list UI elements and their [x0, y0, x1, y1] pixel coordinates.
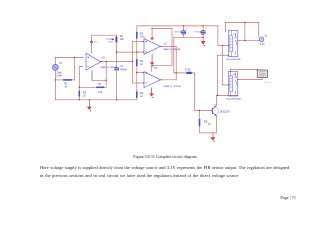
- wire U3 -input: [132, 82, 143, 84]
- page number: [280, 195, 296, 200]
- wire top supply rail: [137, 25, 218, 27]
- wire emitter drop: [215, 116, 217, 133]
- wire collector stub: [215, 95, 217, 105]
- battery V3: [194, 28, 207, 35]
- op-amp U1: [86, 53, 101, 70]
- svg-text:V2 12V: V2 12V: [175, 32, 183, 34]
- wire U2 output: [161, 45, 177, 47]
- svg-text:2.5V: 2.5V: [260, 44, 265, 46]
- wire bus B vertical: [136, 26, 138, 100]
- resistor R5: [79, 91, 87, 98]
- wire feedback left: [79, 86, 96, 88]
- resistor R4 divider mid: [136, 59, 144, 66]
- svg-text:Buzzer: Buzzer: [265, 81, 272, 84]
- relay K2: [226, 72, 240, 101]
- wire R1 to riser: [72, 79, 74, 81]
- wire sources bus drop: [173, 37, 175, 73]
- svg-text:U3: U3: [154, 67, 158, 70]
- wire lamp left drop: [244, 22, 246, 40]
- svg-text:1k: 1k: [83, 95, 86, 98]
- wire V2 bottom stub: [183, 35, 185, 38]
- caption: [5, 154, 320, 159]
- pin dots red: [81, 36, 257, 111]
- svg-text:Q1: Q1: [214, 105, 218, 108]
- wire base horizontal: [195, 109, 212, 111]
- svg-text:1k: 1k: [208, 123, 211, 126]
- wire lamp top horizontal: [226, 21, 259, 23]
- svg-text:V1: V1: [59, 62, 63, 65]
- wire U1 -input stub: [79, 66, 81, 68]
- op-amp U2: [144, 39, 160, 55]
- wire node 3.3V horizontal: [174, 72, 195, 74]
- paragraph line 2: [40, 173, 291, 178]
- svg-text:+: +: [186, 28, 188, 31]
- wire lamp top drop: [258, 22, 260, 37]
- junction dots: [74, 57, 75, 58]
- wire V1 top to U1 +input: [55, 57, 82, 59]
- wire relay feed drop: [221, 45, 223, 85]
- svg-text:2N2222A: 2N2222A: [220, 111, 230, 114]
- wire rail right drop: [217, 26, 219, 46]
- resistor R8 base: [199, 119, 212, 126]
- wire vcc loop bottom: [152, 64, 172, 66]
- svg-text:OPAMP_3T_VIRTUAL: OPAMP_3T_VIRTUAL: [163, 48, 181, 51]
- svg-text:3.3V: 3.3V: [185, 67, 191, 71]
- svg-text:V3 3.3V: V3 3.3V: [194, 32, 202, 34]
- wire ground rail bottom: [55, 99, 136, 101]
- U1 vcc arrow: [90, 40, 99, 44]
- wire K2 coil feed: [222, 84, 228, 86]
- wire collector bus: [216, 94, 237, 96]
- wire K1 to lamp: [238, 40, 260, 42]
- resistor R6 divider bottom: [136, 91, 144, 98]
- resistor R1: [63, 79, 72, 89]
- svg-text:VCC: VCC: [94, 42, 99, 44]
- lamp X1: [259, 35, 267, 46]
- U3 vee stub: [149, 88, 153, 98]
- label U2: [163, 43, 181, 51]
- svg-text:470nF: 470nF: [120, 68, 127, 71]
- svg-text:+: +: [205, 28, 207, 31]
- svg-text:K1: K1: [233, 34, 236, 36]
- node 3.3V tag: [185, 67, 193, 74]
- op-amp U3: [144, 72, 160, 88]
- label U1: [100, 56, 118, 68]
- wire V1 bottom to R1: [55, 79, 63, 81]
- wire K1 coil return: [218, 54, 229, 56]
- resistor R3 divider top: [136, 32, 145, 39]
- wire 3.3V node drop: [194, 73, 196, 111]
- wire U2 +input: [132, 41, 143, 43]
- wire K2 to buzzer bottom: [238, 77, 262, 79]
- paragraph line 1: [40, 165, 291, 170]
- svg-text:1Vpk: 1Vpk: [56, 72, 62, 74]
- ground symbol right: [211, 133, 216, 142]
- ground symbol left: [87, 100, 92, 111]
- wire pot top stub: [116, 35, 118, 37]
- transistor Q1: [212, 105, 230, 116]
- svg-text:U1: U1: [102, 56, 106, 59]
- svg-text:U2: U2: [164, 43, 168, 46]
- wire vcc loop right: [171, 28, 173, 65]
- resistor R7 feedback: [96, 83, 104, 94]
- ground V3 arrow: [201, 41, 205, 46]
- wire U2 vcc loop top: [152, 27, 172, 29]
- wire bus A vertical: [131, 42, 133, 83]
- wire V2 top stub: [183, 26, 185, 30]
- buzzer SC1: [257, 70, 271, 84]
- wire R5 branch vertical: [78, 67, 80, 100]
- source V1: [53, 62, 63, 78]
- svg-text:K2: K2: [233, 74, 236, 76]
- wire U1 output: [101, 61, 132, 63]
- svg-text:50%: 50%: [109, 42, 113, 44]
- svg-text:X1: X1: [264, 35, 268, 37]
- wire K1 coil feed: [218, 44, 229, 46]
- svg-text:Relay_EDR201A05: Relay_EDR201A05: [226, 98, 240, 101]
- wire U3 output: [161, 79, 177, 81]
- battery V2: [175, 28, 188, 35]
- U2 vcc stub: [150, 28, 154, 39]
- wire R1 right riser: [73, 58, 75, 80]
- svg-text:R7: R7: [98, 83, 102, 86]
- label U3: [154, 67, 181, 88]
- wire V1 top stub: [54, 58, 56, 65]
- svg-text:10k: 10k: [120, 38, 125, 41]
- wire pot bottom stub: [116, 42, 118, 52]
- wire K1 return drop: [217, 55, 219, 95]
- wire K1 top stub: [225, 22, 227, 32]
- svg-text:OPAMP_3T_VIRTUAL: OPAMP_3T_VIRTUAL: [100, 66, 118, 69]
- wire U2 out drop: [175, 46, 177, 79]
- svg-text:10k: 10k: [98, 91, 103, 94]
- wire K2 top stub: [230, 70, 232, 72]
- wire pot supply drop: [91, 35, 93, 53]
- wire pot top horizontal: [92, 34, 117, 36]
- wire base resistor branch: [199, 110, 201, 132]
- svg-text:1k: 1k: [64, 86, 67, 89]
- wire K2 to buzzer top: [231, 69, 258, 71]
- svg-text:1k: 1k: [140, 63, 143, 66]
- potentiometer R2: [106, 35, 124, 44]
- wire feedback riser: [105, 62, 107, 88]
- svg-text:1k: 1k: [140, 95, 143, 98]
- relay K1: [226, 31, 240, 62]
- wire V1 bottom rail drop: [54, 70, 56, 100]
- U2 vee stub: [150, 54, 154, 66]
- svg-text:1kHz: 1kHz: [56, 75, 62, 77]
- wire U1 vee link: [92, 79, 106, 81]
- wire U3 +input: [137, 72, 144, 74]
- capacitor C1: [114, 65, 127, 71]
- wire emitter bottom: [200, 132, 217, 134]
- svg-text:Key=A: Key=A: [106, 38, 113, 41]
- svg-text:Relay_EDR201A05: Relay_EDR201A05: [226, 58, 240, 61]
- wire cap C1 branch: [116, 52, 118, 100]
- wire feedback right: [104, 86, 106, 88]
- U3 vcc stub: [151, 65, 153, 71]
- wire pot to U2 -input: [117, 51, 144, 53]
- svg-text:OPAMP_3T_VIRTUAL: OPAMP_3T_VIRTUAL: [163, 85, 181, 88]
- U1 vee link stub: [91, 70, 93, 80]
- svg-text:5.1k: 5.1k: [140, 35, 145, 38]
- wire sources bottom bus: [174, 36, 203, 38]
- wire V3 bottom stub: [202, 35, 204, 42]
- wire V3 top stub: [202, 26, 204, 30]
